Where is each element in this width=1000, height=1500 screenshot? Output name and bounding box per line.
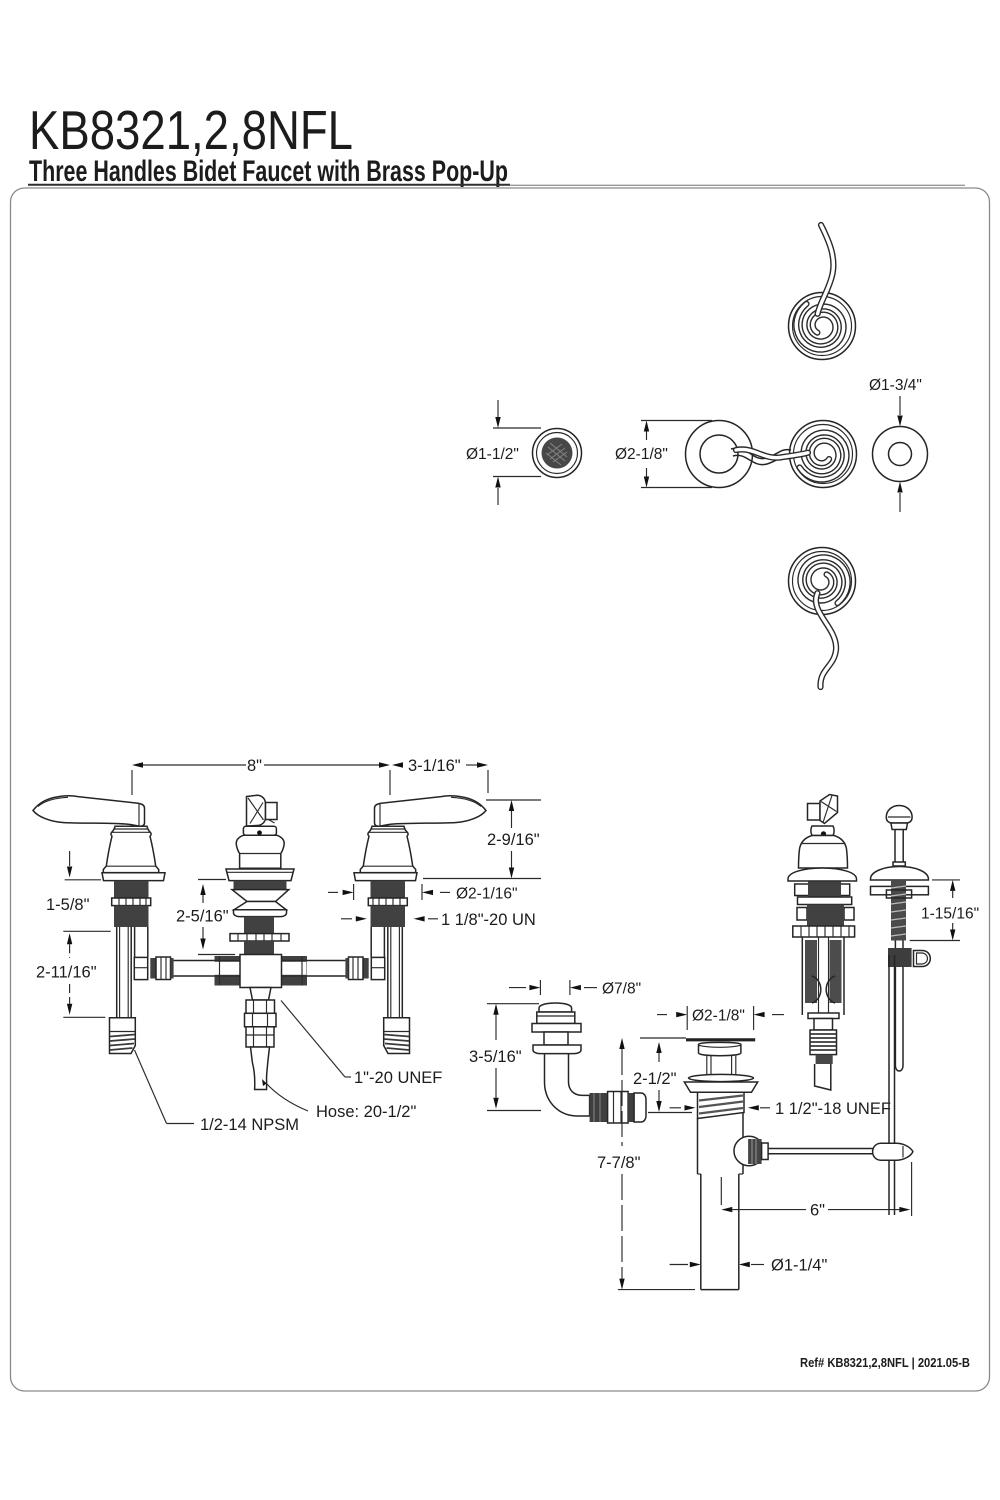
hose couplings bbox=[590, 1093, 608, 1122]
leader 1/2-14 NPSM bbox=[135, 1050, 300, 1134]
svg-text:Ø2-1/8": Ø2-1/8" bbox=[615, 446, 668, 463]
dim 3-1/16" bbox=[392, 762, 403, 767]
valve body bbox=[801, 937, 803, 1015]
tail nut bbox=[816, 1055, 833, 1064]
dim 1-15/16" bbox=[910, 880, 979, 941]
svg-text:Ø1-1/4": Ø1-1/4" bbox=[771, 1257, 827, 1275]
dim 6" bbox=[721, 1162, 911, 1220]
top view: spout escutcheon circle bbox=[686, 421, 793, 488]
top view: lower handle scroll + tail bbox=[789, 548, 856, 615]
tail tube bbox=[815, 1064, 831, 1090]
dim &#216;7/8" bbox=[509, 980, 641, 998]
washer ring bbox=[532, 1024, 581, 1033]
outlet hex couplings bbox=[246, 1000, 275, 1013]
svg-text:6": 6" bbox=[810, 1202, 825, 1220]
svg-text:7-7/8": 7-7/8" bbox=[597, 1154, 641, 1172]
dim &#216;1-1/2" bbox=[466, 400, 541, 505]
rod lower (from knob) bbox=[894, 941, 896, 1067]
horizontal ball rod bbox=[768, 1148, 873, 1150]
tee body center bbox=[240, 955, 282, 988]
svg-text:Ø2-1/16": Ø2-1/16" bbox=[456, 886, 518, 903]
svg-text:1 1/2"-18 UNEF: 1 1/2"-18 UNEF bbox=[775, 1100, 891, 1118]
hose end bbox=[251, 1047, 270, 1090]
dim 2-9/16" bbox=[423, 800, 541, 879]
svg-text:Ø1-3/4": Ø1-3/4" bbox=[869, 377, 922, 394]
svg-text:Ø1-1/2": Ø1-1/2" bbox=[466, 446, 519, 463]
sprayer head bbox=[539, 1003, 572, 1012]
threaded sleeve bbox=[891, 880, 906, 941]
collar bbox=[243, 826, 276, 835]
shank dark upper bbox=[114, 881, 149, 898]
svg-text:Ø7/8": Ø7/8" bbox=[602, 981, 641, 998]
dim &#216;1-1/4" bbox=[670, 1257, 828, 1275]
dome escutcheon bbox=[871, 867, 929, 881]
svg-text:2-5/16": 2-5/16" bbox=[176, 908, 229, 926]
svg-text:Hose: 20-1/2": Hose: 20-1/2" bbox=[316, 1103, 416, 1121]
top view: upper handle scroll + tail bbox=[789, 293, 856, 360]
flange bbox=[533, 1045, 581, 1054]
manifold pipe left segment bbox=[174, 960, 215, 962]
svg-text:Ø2-1/8": Ø2-1/8" bbox=[692, 1008, 745, 1025]
stem bbox=[706, 1056, 708, 1075]
dim 2-11/16" bbox=[36, 944, 105, 1017]
dim &#216;2-1/8" (popup) bbox=[657, 1006, 784, 1030]
drain body bbox=[697, 1119, 699, 1175]
escutcheon dome bbox=[788, 868, 857, 881]
shank dark lower bbox=[114, 906, 149, 927]
body bottom flange bbox=[808, 1013, 839, 1019]
knob bbox=[886, 806, 912, 824]
title underline bbox=[28, 184, 510, 186]
dim &#216;1-3/4" bbox=[869, 377, 922, 512]
supply riser tube bbox=[116, 927, 118, 1018]
ring bbox=[798, 897, 852, 905]
svg-text:1-15/16": 1-15/16" bbox=[921, 906, 979, 923]
svg-text:2-1/2": 2-1/2" bbox=[633, 1070, 677, 1088]
svg-text:2-11/16": 2-11/16" bbox=[36, 964, 97, 982]
dim 1-5/8" bbox=[46, 851, 111, 944]
svg-text:2-9/16": 2-9/16" bbox=[487, 831, 540, 849]
leader 1"-20 UNEF bbox=[281, 1001, 442, 1088]
svg-text:Ref# KB8321,2,8NFL | 2021.05-B: Ref# KB8321,2,8NFL | 2021.05-B bbox=[800, 1356, 970, 1370]
dim 2-5/16" bbox=[176, 880, 235, 955]
svg-text:KB8321,2,8NFL: KB8321,2,8NFL bbox=[29, 99, 353, 161]
neck bbox=[814, 1019, 833, 1031]
thread band with swirls bbox=[698, 1092, 745, 1118]
stopper cap bbox=[699, 1042, 741, 1055]
strap rod down to clevis bbox=[888, 955, 890, 1215]
svg-text:3-5/16": 3-5/16" bbox=[469, 1048, 522, 1066]
tee body: dark side ports bbox=[215, 956, 241, 986]
clamp screw bbox=[888, 948, 912, 967]
escutcheon flange bbox=[102, 873, 165, 881]
collar bbox=[811, 826, 834, 836]
dim 1 1/2"-18 UNEF bbox=[670, 1100, 891, 1118]
manifold pipe right segment bbox=[307, 960, 346, 962]
center spout valve: top knob lever bbox=[215, 795, 308, 1089]
dim &#216;2-1/16" bbox=[328, 884, 518, 903]
washer plate bbox=[871, 886, 929, 894]
svg-text:1-5/8": 1-5/8" bbox=[46, 896, 90, 914]
clevis bbox=[873, 1143, 913, 1160]
drain flange bbox=[686, 1038, 755, 1041]
elbow tube to manifold bbox=[134, 927, 136, 957]
rod upper bbox=[894, 830, 896, 863]
handle bell bbox=[103, 826, 158, 872]
top view: right handle scroll bbox=[790, 421, 857, 488]
threaded tail bbox=[810, 1030, 837, 1055]
thin ellipse washer bbox=[689, 1074, 754, 1081]
dim 3-5/16" bbox=[469, 1004, 541, 1111]
bell bbox=[799, 836, 848, 869]
dark band under flange bbox=[234, 881, 287, 890]
dark shank with wings bbox=[797, 908, 807, 921]
elbow tube bbox=[545, 1054, 590, 1116]
tailpipe bbox=[698, 1173, 701, 1175]
outlet neck bbox=[250, 988, 271, 1001]
flange washer bbox=[684, 1082, 757, 1092]
lock ring bbox=[112, 898, 151, 906]
neck bbox=[544, 1032, 568, 1045]
pivot ball bbox=[734, 1136, 764, 1166]
dim 7-7/8" bbox=[597, 1038, 695, 1290]
dark shank lower bbox=[244, 941, 274, 955]
leader Hose: 20-1/2" bbox=[266, 1083, 416, 1121]
locknut bbox=[230, 934, 289, 941]
svg-text:8": 8" bbox=[247, 757, 262, 775]
escutcheon bbox=[226, 869, 294, 881]
svg-text:1/2-14 NPSM: 1/2-14 NPSM bbox=[200, 1116, 299, 1134]
border frame bbox=[11, 188, 990, 1391]
dim 1 1/8"-20 UN bbox=[341, 911, 536, 929]
top view: hole circle &#216;1-3/4" bbox=[873, 427, 928, 482]
coupling nut bbox=[150, 958, 156, 979]
lever handle (left) bbox=[33, 796, 145, 826]
double cone bbox=[232, 890, 289, 902]
svg-text:1"-20 UNEF: 1"-20 UNEF bbox=[354, 1069, 442, 1087]
dim 8" bbox=[132, 757, 488, 795]
svg-text:1 1/8"-20 UN: 1 1/8"-20 UN bbox=[441, 911, 536, 929]
locknut bbox=[793, 926, 855, 937]
side tabs + dark band bbox=[795, 884, 850, 896]
supply tail threaded 1/2-14 NPSM bbox=[110, 1018, 136, 1054]
top view: spout outlet hatched circle bbox=[533, 429, 582, 478]
dark shank bbox=[244, 917, 274, 934]
dim &#216;2-1/8" bbox=[615, 421, 712, 488]
dim 2-1/2" bbox=[633, 1042, 692, 1113]
svg-text:3-1/16": 3-1/16" bbox=[408, 757, 461, 775]
folded lever bbox=[808, 804, 821, 821]
bell bbox=[236, 835, 284, 868]
svg-text:Three Handles Bidet Faucet wit: Three Handles Bidet Faucet with Brass Po… bbox=[29, 155, 508, 188]
